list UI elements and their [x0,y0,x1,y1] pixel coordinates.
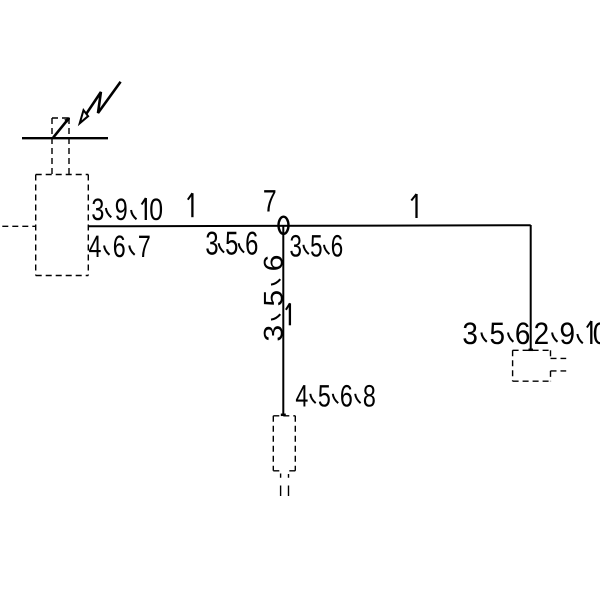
svg-text:6: 6 [259,255,289,272]
svg-text:0: 0 [149,192,163,227]
svg-text:5: 5 [310,228,322,263]
svg-text:3: 3 [91,192,104,227]
svg-text:9: 9 [560,316,576,351]
svg-text:2: 2 [534,316,550,351]
svg-text:6: 6 [245,224,258,261]
svg-text:6: 6 [113,229,126,264]
svg-text:3: 3 [462,316,478,351]
svg-text:6: 6 [340,378,353,413]
svg-text:5: 5 [225,224,238,261]
svg-text:7: 7 [263,184,277,219]
svg-text:9: 9 [115,192,128,227]
svg-text:0: 0 [593,316,600,351]
svg-text:3: 3 [205,224,218,261]
svg-text:7: 7 [138,229,151,264]
svg-text:4: 4 [295,378,308,413]
svg-text:8: 8 [363,378,376,413]
svg-text:3: 3 [259,325,289,342]
svg-text:6: 6 [331,228,343,263]
svg-text:6: 6 [515,316,531,351]
svg-text:3: 3 [289,228,301,263]
svg-text:5: 5 [259,290,289,307]
svg-text:5: 5 [318,378,331,413]
svg-text:5: 5 [490,316,506,351]
svg-text:4: 4 [89,229,102,264]
